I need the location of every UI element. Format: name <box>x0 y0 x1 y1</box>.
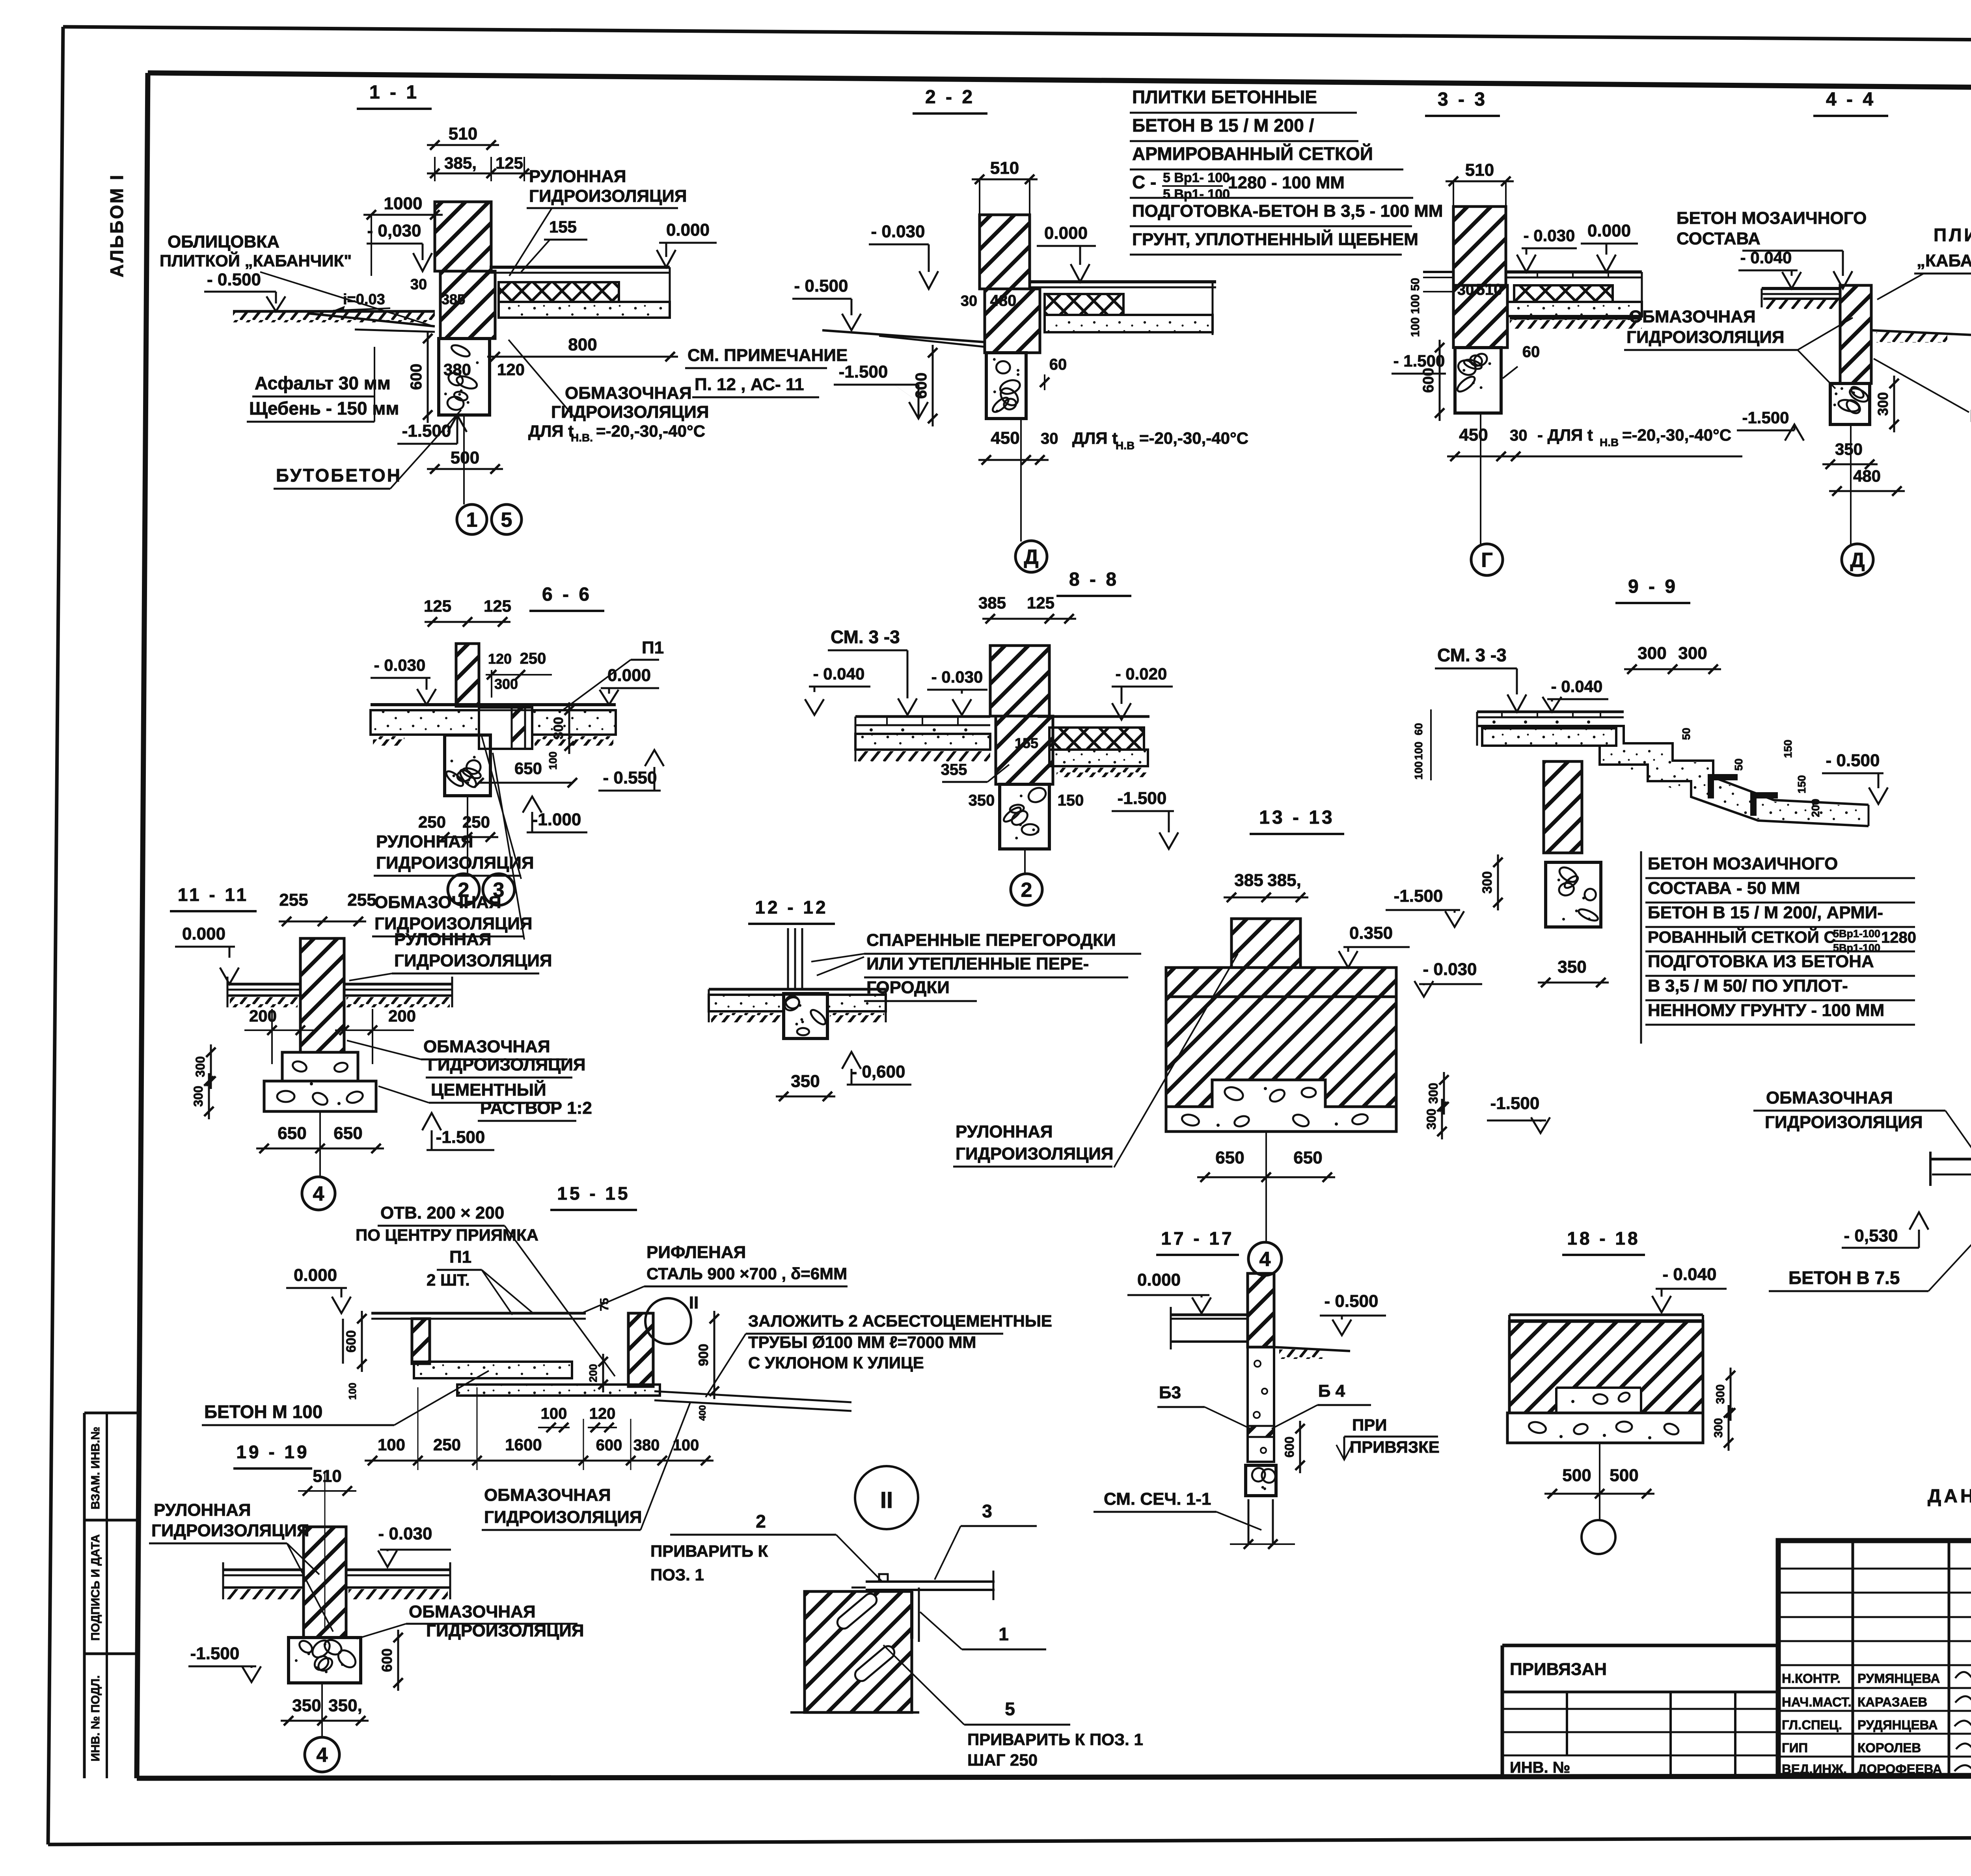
svg-text:- 0.040: - 0.040 <box>1663 1265 1717 1284</box>
svg-text:1280 - 100 ММ: 1280 - 100 ММ <box>1228 173 1345 192</box>
section 6-6 axis circles 2 3 <box>467 796 468 874</box>
svg-text:120: 120 <box>497 360 525 379</box>
section 4-4 wall <box>1840 285 1871 383</box>
svg-text:II: II <box>689 1293 699 1312</box>
section 3-3 axis circle G <box>1480 413 1481 545</box>
section 18-18 footing band <box>1507 1413 1703 1443</box>
svg-text:600: 600 <box>1420 368 1437 393</box>
svg-text:3 - 3: 3 - 3 <box>1438 89 1487 110</box>
svg-text:100 100 50: 100 100 50 <box>1409 278 1422 337</box>
svg-text:ГИДРОИЗОЛЯЦИЯ: ГИДРОИЗОЛЯЦИЯ <box>428 1055 586 1074</box>
svg-text:СПАРЕННЫЕ ПЕРЕГОРОДКИ: СПАРЕННЫЕ ПЕРЕГОРОДКИ <box>866 931 1116 950</box>
svg-text:50: 50 <box>1680 728 1692 740</box>
svg-text:- 0.030: - 0.030 <box>871 222 925 241</box>
svg-text:ПРИ: ПРИ <box>1352 1416 1387 1434</box>
svg-text:- 0.030: - 0.030 <box>931 668 983 686</box>
svg-text:350: 350 <box>791 1072 820 1091</box>
svg-text:0.000: 0.000 <box>1044 223 1088 243</box>
svg-text:1280: 1280 <box>1881 929 1916 946</box>
svg-text:350: 350 <box>969 792 995 809</box>
section 12-12 floor <box>709 988 886 991</box>
svg-text:ДОРОФЕЕВА: ДОРОФЕЕВА <box>1857 1762 1942 1776</box>
svg-text:ПРИВАРИТЬ К: ПРИВАРИТЬ К <box>650 1542 768 1560</box>
svg-text:СМ. 3 -3: СМ. 3 -3 <box>1437 645 1507 665</box>
svg-text:100: 100 <box>547 752 559 770</box>
svg-text:2: 2 <box>458 879 469 902</box>
svg-text:4: 4 <box>317 1744 328 1767</box>
svg-text:50: 50 <box>1733 758 1745 770</box>
svg-text:ОБМАЗОЧНАЯ: ОБМАЗОЧНАЯ <box>1629 307 1756 326</box>
svg-text:СОСТАВА - 50 ММ: СОСТАВА - 50 ММ <box>1648 878 1800 898</box>
svg-text:120: 120 <box>589 1405 616 1422</box>
svg-text:300: 300 <box>1678 644 1707 663</box>
svg-text:-1.500: -1.500 <box>1490 1094 1540 1113</box>
section 18-18 axis circle <box>1599 1443 1600 1520</box>
svg-text:РОВАННЫЙ СЕТКОЙ С: РОВАННЫЙ СЕТКОЙ С <box>1648 927 1836 946</box>
svg-text:510: 510 <box>449 124 477 143</box>
svg-text:450: 450 <box>1459 425 1488 445</box>
svg-text:- 0.550: - 0.550 <box>603 768 657 787</box>
svg-text:510: 510 <box>313 1467 341 1486</box>
svg-text:НЕННОМУ ГРУНТУ - 100 ММ: НЕННОМУ ГРУНТУ - 100 ММ <box>1648 1001 1884 1020</box>
svg-text:- 0.030: - 0.030 <box>374 656 426 674</box>
svg-text:КОРОЛЕВ: КОРОЛЕВ <box>1857 1740 1921 1755</box>
svg-text:30: 30 <box>1510 427 1528 444</box>
svg-text:255: 255 <box>347 890 376 910</box>
svg-text:155: 155 <box>549 218 577 236</box>
svg-text:РУДЯНЦЕВА: РУДЯНЦЕВА <box>1857 1718 1938 1732</box>
svg-text:СМ. СЕЧ. 1-1: СМ. СЕЧ. 1-1 <box>1104 1489 1211 1509</box>
section 13-13 axis circle 4 <box>1265 1132 1267 1242</box>
svg-text:АЛЬБОМ I: АЛЬБОМ I <box>106 173 127 277</box>
svg-text:0.000: 0.000 <box>607 666 651 685</box>
svg-text:ИНВ. № ПОДЛ.: ИНВ. № ПОДЛ. <box>89 1675 102 1762</box>
svg-text:СОСТАВА: СОСТАВА <box>1677 229 1760 248</box>
svg-text:БЕТОН МОЗАИЧНОГО: БЕТОН МОЗАИЧНОГО <box>1677 208 1867 228</box>
svg-text:БЕТОН В 15 / М 200/, АРМИ-: БЕТОН В 15 / М 200/, АРМИ- <box>1648 903 1883 922</box>
section 6-6 floor slab <box>371 703 616 706</box>
section 1-1 dim 500 <box>427 468 503 470</box>
svg-text:650: 650 <box>1215 1148 1244 1167</box>
svg-text:150: 150 <box>1796 775 1808 794</box>
svg-text:РУМЯНЦЕВА: РУМЯНЦЕВА <box>1857 1671 1940 1686</box>
section 19-19 axis circle 4 <box>321 1683 323 1737</box>
svg-text:75: 75 <box>598 1298 611 1311</box>
svg-text:250: 250 <box>462 813 490 831</box>
section 1-1 rubble concrete footing <box>439 339 490 415</box>
section 8-8 footing <box>1000 784 1049 849</box>
svg-text:0.000: 0.000 <box>294 1266 337 1285</box>
svg-text:ПРИВАРИТЬ К ПОЗ. 1: ПРИВАРИТЬ К ПОЗ. 1 <box>967 1730 1143 1749</box>
svg-text:600: 600 <box>596 1437 622 1454</box>
section 2-2 axis circle D <box>1020 419 1022 542</box>
section 1-1 ground line left <box>233 310 435 313</box>
svg-text:ОБМАЗОЧНАЯ: ОБМАЗОЧНАЯ <box>374 893 501 912</box>
svg-text:- 0.040: - 0.040 <box>1551 677 1603 696</box>
svg-text:0.000: 0.000 <box>666 220 710 240</box>
svg-text:13 - 13: 13 - 13 <box>1259 807 1334 828</box>
section 17-17 column <box>1248 1347 1274 1462</box>
svg-text:Б 4: Б 4 <box>1318 1381 1345 1401</box>
svg-text:350: 350 <box>292 1696 321 1715</box>
svg-text:ДАННЫЙ ЛИСТ ЧИТАТЬ С ЛИСТА: ДАННЫЙ ЛИСТ ЧИТАТЬ С ЛИСТАМИ АС-11 ,12 <box>1928 1485 1971 1507</box>
svg-text:ОБМАЗОЧНАЯ: ОБМАЗОЧНАЯ <box>1766 1088 1893 1107</box>
svg-text:- 0,530: - 0,530 <box>1844 1226 1898 1245</box>
svg-text:ОТВ. 200 × 200: ОТВ. 200 × 200 <box>380 1203 504 1223</box>
svg-text:РИФЛЕНАЯ: РИФЛЕНАЯ <box>646 1243 746 1262</box>
section 1-1 wall above floor <box>435 202 491 271</box>
svg-text:4: 4 <box>1259 1248 1271 1271</box>
svg-text:Асфальт 30 мм: Асфальт 30 мм <box>255 373 391 393</box>
svg-text:600: 600 <box>1282 1437 1297 1457</box>
svg-text:6 - 6: 6 - 6 <box>542 584 592 605</box>
section 17-17 footing block <box>1246 1465 1276 1496</box>
svg-text:Н.В: Н.В <box>1116 439 1135 452</box>
svg-text:- 1.500: - 1.500 <box>1393 352 1445 370</box>
svg-text:350: 350 <box>1835 440 1863 458</box>
svg-text:900: 900 <box>696 1344 711 1366</box>
svg-text:-1.500: -1.500 <box>1742 408 1789 427</box>
svg-text:- 0.030: - 0.030 <box>1423 960 1477 979</box>
svg-text:-1.500: -1.500 <box>1394 886 1443 906</box>
section 2-2 footing <box>986 353 1026 419</box>
section 17-17 dim 600v <box>1299 1421 1301 1473</box>
svg-text:300: 300 <box>1424 1109 1438 1130</box>
section 2-2 wall above floor <box>980 215 1030 289</box>
svg-text:ПОДГОТОВКА ИЗ БЕТОНА: ПОДГОТОВКА ИЗ БЕТОНА <box>1648 952 1874 971</box>
svg-text:650: 650 <box>514 759 542 778</box>
svg-text:II: II <box>880 1487 893 1513</box>
svg-text:- 0.030: - 0.030 <box>1524 226 1575 245</box>
section 8-8 wall below <box>996 716 1053 784</box>
svg-text:600: 600 <box>408 364 425 390</box>
svg-text:-1.500: -1.500 <box>436 1128 485 1147</box>
svg-text:Д: Д <box>1850 549 1865 572</box>
svg-text:ПОДГОТОВКА-БЕТОН В 3,5 - 100: ПОДГОТОВКА-БЕТОН В 3,5 - 100 ММ <box>1132 201 1443 221</box>
svg-text:250: 250 <box>433 1435 461 1454</box>
section 9-9 stepped slab <box>1477 711 1624 713</box>
section 3-3 footing <box>1455 348 1501 413</box>
section 1-1 dim 510 <box>427 144 499 146</box>
svg-text:ВЕД.ИНЖ.: ВЕД.ИНЖ. <box>1782 1762 1847 1776</box>
section 6-6 pit under floor <box>479 707 532 749</box>
svg-text:5 Вр1- 100: 5 Вр1- 100 <box>1163 187 1230 202</box>
section 6-6 dim 300v 100v <box>568 702 570 754</box>
svg-text:Б3: Б3 <box>1159 1383 1181 1402</box>
svg-text:380: 380 <box>633 1437 660 1454</box>
section 2-2 dim 510 <box>972 179 1038 181</box>
svg-text:-1.500: -1.500 <box>190 1644 240 1663</box>
svg-text:300: 300 <box>1875 392 1891 416</box>
section 11-11 floor lines <box>227 983 300 986</box>
svg-text:385: 385 <box>442 291 465 307</box>
svg-text:12 - 12: 12 - 12 <box>755 897 828 918</box>
svg-text:250: 250 <box>520 650 546 667</box>
svg-text:1: 1 <box>466 509 478 532</box>
section 6-6 wall <box>456 644 479 706</box>
svg-text:РУЛОННАЯ: РУЛОННАЯ <box>154 1500 251 1520</box>
svg-text:300: 300 <box>191 1086 205 1107</box>
section 11-11 dims 300v 300v <box>210 1044 212 1089</box>
node II hatched block <box>805 1591 912 1712</box>
svg-text:355: 355 <box>941 761 967 778</box>
svg-text:i=0.03: i=0.03 <box>343 291 385 308</box>
svg-text:125: 125 <box>484 597 511 615</box>
svg-text:ГИДРОИЗОЛЯЦИЯ: ГИДРОИЗОЛЯЦИЯ <box>151 1521 309 1540</box>
svg-text:385,: 385, <box>1267 871 1301 890</box>
svg-text:5: 5 <box>501 509 512 532</box>
svg-text:600: 600 <box>344 1330 359 1353</box>
section 19-19 footing <box>289 1638 361 1683</box>
svg-text:ГИДРОИЗОЛЯЦИЯ: ГИДРОИЗОЛЯЦИЯ <box>956 1144 1114 1163</box>
section 17-17 bottom dim <box>1230 1543 1295 1545</box>
svg-text:150: 150 <box>1058 792 1084 809</box>
svg-text:С УКЛОНОМ К УЛИЦЕ: С УКЛОНОМ К УЛИЦЕ <box>748 1353 924 1372</box>
svg-text:РУЛОННАЯ: РУЛОННАЯ <box>529 167 626 186</box>
privyazan box <box>1502 1644 1778 1647</box>
svg-text:4 - 4: 4 - 4 <box>1826 89 1876 110</box>
svg-text:0.350: 0.350 <box>1349 923 1393 943</box>
svg-text:480: 480 <box>1853 467 1881 485</box>
svg-text:ГИДРОИЗОЛЯЦИЯ: ГИДРОИЗОЛЯЦИЯ <box>529 186 687 206</box>
svg-text:650: 650 <box>333 1124 362 1143</box>
svg-text:125: 125 <box>496 154 523 172</box>
svg-text:3: 3 <box>493 879 505 902</box>
svg-text:- 0.500: - 0.500 <box>794 276 848 296</box>
svg-text:ПРИВЯЗАН: ПРИВЯЗАН <box>1510 1660 1607 1679</box>
svg-text:ШАГ 250: ШАГ 250 <box>967 1751 1038 1769</box>
left stamp column <box>84 1412 137 1414</box>
svg-text:30: 30 <box>1041 430 1058 447</box>
section 17-17 floor left <box>1171 1314 1248 1316</box>
section 1-1 dim 1000 <box>363 214 443 216</box>
section 13-13 wall column <box>1231 919 1300 968</box>
svg-text:1000: 1000 <box>384 194 423 213</box>
svg-text:Г: Г <box>1481 549 1492 572</box>
svg-text:- 0,030: - 0,030 <box>367 221 421 240</box>
svg-text:500: 500 <box>1610 1466 1638 1485</box>
svg-text:0.000: 0.000 <box>1587 221 1631 240</box>
svg-text:ИЛИ УТЕПЛЕННЫЕ ПЕРЕ-: ИЛИ УТЕПЛЕННЫЕ ПЕРЕ- <box>866 954 1089 973</box>
svg-text:=-20,-30,-40°С: =-20,-30,-40°С <box>1622 426 1731 444</box>
svg-text:5 Вр1- 100: 5 Вр1- 100 <box>1163 170 1230 185</box>
svg-text:300: 300 <box>1712 1418 1725 1438</box>
svg-text:8 - 8: 8 - 8 <box>1069 569 1119 590</box>
svg-text:- 0.500: - 0.500 <box>1325 1292 1379 1311</box>
section 8-8 axis circle 2 <box>1024 849 1026 874</box>
section 11-11 wall <box>300 938 344 1052</box>
svg-text:385: 385 <box>1234 871 1263 890</box>
section 4-4 footing <box>1830 383 1870 424</box>
svg-text:510: 510 <box>990 158 1019 178</box>
svg-text:300: 300 <box>1480 871 1495 894</box>
svg-text:Н.КОНТР.: Н.КОНТР. <box>1782 1671 1841 1686</box>
svg-text:Щебень - 150 мм: Щебень - 150 мм <box>249 398 399 419</box>
svg-text:2: 2 <box>756 1511 766 1532</box>
svg-text:- 0.500: - 0.500 <box>207 270 261 289</box>
svg-text:ОБМАЗОЧНАЯ: ОБМАЗОЧНАЯ <box>565 383 692 403</box>
section 2-2 wall below floor <box>985 289 1040 353</box>
svg-text:Н.В: Н.В <box>1600 436 1619 449</box>
svg-text:2 - 2: 2 - 2 <box>925 87 975 108</box>
svg-text:АРМИРОВАННЫЙ СЕТКОЙ: АРМИРОВАННЫЙ СЕТКОЙ <box>1132 143 1373 164</box>
svg-text:СМ. 3 -3: СМ. 3 -3 <box>831 627 900 647</box>
svg-text:600: 600 <box>379 1648 395 1672</box>
svg-text:ГИДРОИЗОЛЯЦИЯ: ГИДРОИЗОЛЯЦИЯ <box>484 1507 642 1527</box>
svg-text:РУЛОННАЯ: РУЛОННАЯ <box>376 832 473 851</box>
svg-text:ПРИВЯЗКЕ: ПРИВЯЗКЕ <box>1350 1438 1440 1456</box>
section 8-8 wall above <box>990 646 1049 716</box>
section 2-2 dim 600v <box>932 345 934 426</box>
svg-text:БЕТОН В 7.5: БЕТОН В 7.5 <box>1788 1267 1900 1288</box>
section 9-9 footing <box>1546 862 1601 927</box>
outer border <box>63 27 1971 44</box>
section 9-9 dim 300v <box>1497 854 1499 910</box>
svg-text:255: 255 <box>279 890 308 910</box>
section 18-18 slab with hatch <box>1509 1314 1703 1316</box>
svg-text:510: 510 <box>1465 160 1494 180</box>
section 1-1 wall below floor <box>440 271 495 339</box>
svg-text:2 ШТ.: 2 ШТ. <box>427 1271 470 1289</box>
svg-text:650: 650 <box>278 1124 306 1143</box>
svg-text:100: 100 <box>1412 761 1425 780</box>
svg-text:ГИДРОИЗОЛЯЦИЯ: ГИДРОИЗОЛЯЦИЯ <box>1626 328 1785 347</box>
section 3-3 dim 600v <box>1439 340 1441 421</box>
svg-text:60: 60 <box>1049 356 1067 373</box>
svg-text:385,: 385, <box>444 154 477 172</box>
section 19-19 wall <box>304 1527 346 1638</box>
svg-text:650: 650 <box>1293 1148 1322 1167</box>
svg-text:ТРУБЫ Ø100 ММ ℓ=7000 ММ: ТРУБЫ Ø100 ММ ℓ=7000 ММ <box>748 1333 976 1351</box>
svg-text:ГЛ.СПЕЦ.: ГЛ.СПЕЦ. <box>1782 1718 1842 1732</box>
svg-text:1600: 1600 <box>505 1435 542 1454</box>
svg-text:БУТОБЕТОН: БУТОБЕТОН <box>276 465 402 486</box>
svg-text:С -: С - <box>1132 172 1156 192</box>
section 1-1 dim 800 <box>487 356 678 358</box>
svg-text:КАРАЗАЕВ: КАРАЗАЕВ <box>1857 1695 1927 1709</box>
svg-text:ПОЗ. 1: ПОЗ. 1 <box>650 1565 704 1584</box>
section 15-15 node circle II <box>645 1298 691 1344</box>
node II plate <box>866 1580 995 1583</box>
svg-text:300: 300 <box>551 717 566 739</box>
svg-text:ГИДРОИЗОЛЯЦИЯ: ГИДРОИЗОЛЯЦИЯ <box>394 951 552 970</box>
svg-text:- 0.040: - 0.040 <box>813 664 865 683</box>
svg-text:ПЛИТКОЙ „КАБАНЧИК": ПЛИТКОЙ „КАБАНЧИК" <box>160 251 352 270</box>
svg-text:300: 300 <box>1426 1083 1440 1104</box>
title block frame <box>1778 1541 1971 1775</box>
svg-text:РУЛОННАЯ: РУЛОННАЯ <box>394 930 492 949</box>
section 18-18 dims 300 300 v <box>1730 1368 1732 1421</box>
svg-text:300: 300 <box>1714 1384 1727 1404</box>
svg-text:ОБЛИЦОВКА: ОБЛИЦОВКА <box>168 232 279 251</box>
svg-text:ГИДРОИЗОЛЯЦИЯ: ГИДРОИЗОЛЯЦИЯ <box>1765 1113 1923 1132</box>
section 17-17 wall <box>1248 1273 1274 1347</box>
svg-text:В 3,5 / М 50/ ПО УПЛОТ-: В 3,5 / М 50/ ПО УПЛОТ- <box>1648 976 1848 996</box>
svg-text:480: 480 <box>990 292 1017 309</box>
svg-text:-1.000: -1.000 <box>532 810 581 829</box>
svg-text:- ДЛЯ t: - ДЛЯ t <box>1537 426 1593 444</box>
svg-text:380: 380 <box>443 360 471 379</box>
svg-text:БЕТОН В 15 / М 200 /: БЕТОН В 15 / М 200 / <box>1132 115 1314 136</box>
svg-text:- 0.500: - 0.500 <box>1826 751 1880 770</box>
svg-text:5Вр1-100: 5Вр1-100 <box>1833 928 1880 940</box>
svg-text:ДЛЯ t: ДЛЯ t <box>528 422 574 440</box>
svg-text:ГИП: ГИП <box>1782 1740 1808 1755</box>
svg-text:800: 800 <box>568 335 597 354</box>
svg-text:125: 125 <box>1027 594 1054 612</box>
section 3-3 wall above floor <box>1453 207 1506 285</box>
svg-text:Д: Д <box>1024 546 1038 569</box>
section 9-9 wall <box>1544 761 1582 853</box>
section 1-1 dim 385 125 <box>434 157 436 181</box>
svg-text:- 0.020: - 0.020 <box>1116 664 1167 683</box>
section 1-1 axis circles 1 5 <box>463 415 465 504</box>
svg-text:450: 450 <box>991 428 1019 448</box>
svg-text:СМ. ПРИМЕЧАНИЕ: СМ. ПРИМЕЧАНИЕ <box>687 346 848 365</box>
svg-text:ОБМАЗОЧНАЯ: ОБМАЗОЧНАЯ <box>423 1037 550 1056</box>
section 12-12 partition wall lines <box>787 928 789 989</box>
svg-text:30: 30 <box>1457 282 1474 298</box>
svg-text:БЕТОН М 100: БЕТОН М 100 <box>204 1401 322 1422</box>
svg-text:300: 300 <box>494 676 518 692</box>
svg-text:250: 250 <box>418 813 446 831</box>
section 3-3 dim 510 <box>1446 181 1514 182</box>
svg-text:15 - 15: 15 - 15 <box>557 1183 630 1204</box>
section 19-19 floor lines <box>223 1569 304 1571</box>
svg-text:ВЗАМ. ИНВ.№: ВЗАМ. ИНВ.№ <box>89 1427 102 1509</box>
svg-text:ДЛЯ t: ДЛЯ t <box>1072 429 1118 447</box>
node II detail circle <box>855 1466 918 1529</box>
svg-text:350,: 350, <box>328 1696 362 1715</box>
svg-text:БЕТОН МОЗАИЧНОГО: БЕТОН МОЗАИЧНОГО <box>1648 854 1838 873</box>
section 19-19 dim 600v <box>397 1630 399 1691</box>
section 17-17 ground right <box>1274 1347 1350 1351</box>
svg-text:ИНВ. №: ИНВ. № <box>1510 1759 1570 1776</box>
svg-text:100: 100 <box>347 1383 358 1400</box>
svg-text:3: 3 <box>982 1501 992 1521</box>
section 2-2 floor slab right <box>1030 280 1216 283</box>
svg-text:НАЧ.МАСТ.: НАЧ.МАСТ. <box>1782 1695 1852 1709</box>
svg-text:30: 30 <box>961 293 977 309</box>
svg-text:ПЛИТКА: ПЛИТКА <box>1934 225 1971 245</box>
section 3-3 left floor edge <box>1423 271 1453 273</box>
svg-text:100: 100 <box>378 1435 405 1454</box>
section 1-1 floor slab right <box>490 266 670 269</box>
section 17-17 column below <box>1248 1499 1250 1544</box>
section 4-4 ground right <box>1871 330 1971 336</box>
svg-text:60: 60 <box>1522 343 1540 361</box>
svg-text:100: 100 <box>1412 742 1425 760</box>
svg-text:500: 500 <box>451 448 479 467</box>
section 6-6 footing <box>445 735 490 796</box>
svg-text:РУЛОННАЯ: РУЛОННАЯ <box>956 1122 1053 1141</box>
svg-text:П1: П1 <box>449 1247 471 1267</box>
section 3-3 floor slab right with tiles <box>1506 270 1642 274</box>
section 8-8 left floor with plates <box>855 715 990 718</box>
svg-text:400: 400 <box>697 1405 708 1421</box>
svg-text:200: 200 <box>388 1007 416 1025</box>
svg-text:СТАЛЬ 900 ×700 , δ=6ММ: СТАЛЬ 900 ×700 , δ=6ММ <box>646 1264 847 1283</box>
section 12-12 footing <box>784 994 827 1038</box>
svg-text:=-20,-30,-40°С: =-20,-30,-40°С <box>596 422 705 440</box>
section 1-1 dim 600v <box>427 331 429 423</box>
svg-text:ПОДПИСЬ И ДАТА: ПОДПИСЬ И ДАТА <box>89 1534 102 1641</box>
svg-text:ОБМАЗОЧНАЯ: ОБМАЗОЧНАЯ <box>409 1602 536 1621</box>
svg-text:500: 500 <box>1562 1466 1591 1485</box>
svg-text:П. 12 , АС- 11: П. 12 , АС- 11 <box>695 375 804 394</box>
svg-text:385: 385 <box>978 594 1006 612</box>
svg-text:200: 200 <box>1809 799 1822 817</box>
